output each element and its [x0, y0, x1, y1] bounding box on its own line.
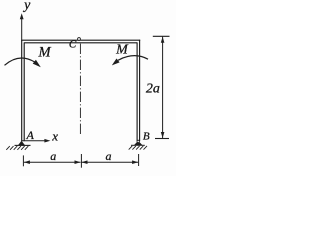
frame column B (right, double line): [137, 40, 140, 141]
pinned support B (pin circle + triangle + ground + hatching): [129, 140, 147, 149]
svg-text:A: A: [26, 128, 35, 142]
svg-text:C: C: [69, 39, 77, 51]
svg-text:a: a: [50, 149, 56, 163]
frame column A (left, double line): [22, 40, 25, 141]
svg-text:x: x: [51, 129, 58, 144]
y-axis: [20, 13, 24, 40]
svg-text:y: y: [22, 0, 31, 13]
svg-text:M: M: [115, 43, 129, 58]
svg-text:B: B: [143, 130, 150, 142]
dimension a (right span): [81, 154, 138, 168]
moment M left arrow (clockwise arc): [5, 58, 41, 67]
svg-text:2a: 2a: [146, 81, 160, 96]
svg-text:a: a: [106, 149, 112, 163]
svg-text:M: M: [37, 45, 51, 61]
dimension 2a (right side): [153, 36, 170, 138]
pinned support A (triangle + ground + hatching): [6, 141, 30, 150]
hinge circle at C: [78, 38, 81, 41]
dimension a (left span): [23, 155, 80, 166]
frame beam CD (top, double line): [21, 40, 140, 43]
centerline (dash-dot): [79, 44, 81, 136]
moment M right arrow (counterclockwise arc): [112, 56, 148, 66]
x-axis: [22, 139, 50, 143]
